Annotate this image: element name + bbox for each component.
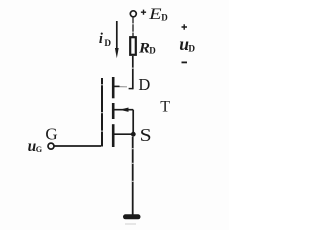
terminal u_G bbox=[48, 143, 54, 149]
resistor R_D bbox=[130, 37, 136, 55]
label u_D with polarity bbox=[179, 24, 195, 62]
current arrow i_D bbox=[115, 21, 119, 58]
svg-text:T: T bbox=[160, 98, 170, 115]
svg-text:D: D bbox=[161, 13, 168, 23]
ground bbox=[126, 214, 139, 219]
svg-text:G: G bbox=[36, 145, 43, 154]
wire gate lead bbox=[54, 145, 101, 147]
label R_D bbox=[138, 40, 156, 56]
transistor T : body arrow bbox=[115, 108, 134, 112]
wire source to ground bbox=[132, 137, 134, 216]
wire resistor to drain bbox=[132, 56, 134, 89]
svg-text:E: E bbox=[148, 5, 162, 22]
label u_G bbox=[28, 138, 43, 155]
wire body to source bbox=[132, 110, 134, 135]
label +E_D bbox=[141, 5, 168, 23]
wire drain stub bbox=[114, 86, 133, 88]
svg-text:G: G bbox=[45, 125, 57, 144]
wire terminal to resistor bbox=[132, 17, 134, 36]
svg-text:R: R bbox=[138, 40, 150, 56]
svg-text:D: D bbox=[149, 46, 156, 56]
svg-text:D: D bbox=[104, 38, 111, 48]
transistor T : channel body segment bbox=[112, 103, 115, 119]
terminal +E_D bbox=[130, 11, 136, 17]
junction dot S node bbox=[131, 132, 136, 137]
transistor T : channel source segment bbox=[112, 124, 115, 147]
transistor T : gate bar bbox=[101, 78, 103, 147]
label i_D bbox=[99, 31, 112, 48]
svg-text:i: i bbox=[99, 31, 103, 47]
svg-text:D: D bbox=[138, 75, 150, 94]
svg-text:D: D bbox=[188, 44, 195, 54]
print smudge below ground bbox=[125, 223, 136, 225]
wire source stub bbox=[115, 133, 134, 135]
transistor T : channel drain segment bbox=[112, 77, 115, 98]
svg-text:S: S bbox=[140, 126, 152, 146]
